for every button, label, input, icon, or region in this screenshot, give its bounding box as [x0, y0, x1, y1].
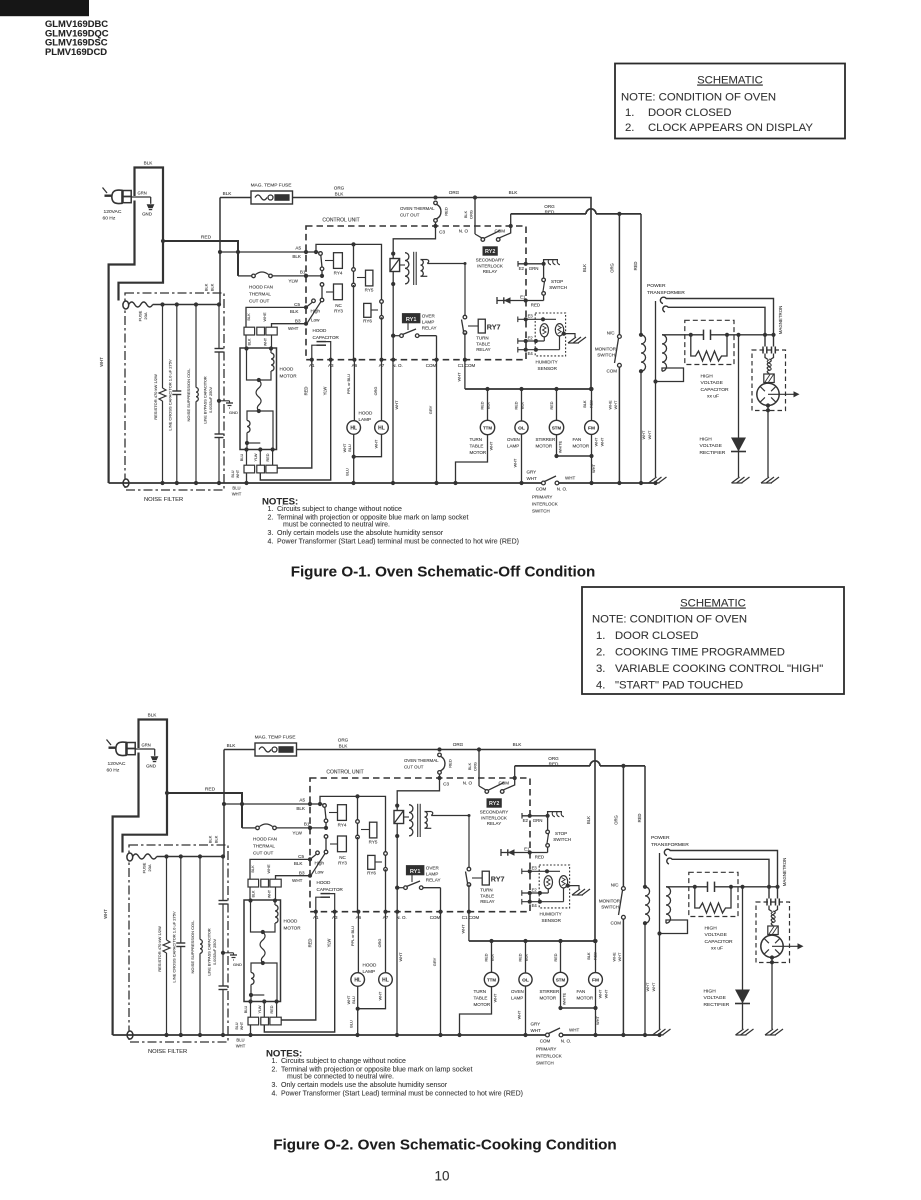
svg-text:WHE: WHE	[612, 952, 617, 961]
control unit bottom terminals	[310, 358, 314, 362]
magnetron tube	[761, 935, 783, 957]
svg-text:A5: A5	[295, 246, 301, 251]
hood motor upper connector	[244, 327, 255, 335]
svg-text:GND: GND	[142, 211, 152, 216]
svg-text:xx uF: xx uF	[711, 946, 723, 952]
svg-text:WHT: WHT	[651, 982, 656, 991]
power transformer filament winding leads	[660, 297, 773, 346]
svg-text:WHT: WHT	[595, 437, 599, 446]
svg-text:HOOD: HOOD	[317, 880, 331, 885]
svg-text:NOTE: CONDITION OF OVEN: NOTE: CONDITION OF OVEN	[621, 92, 776, 104]
svg-text:TRANSFORMER: TRANSFORMER	[647, 290, 685, 296]
svg-text:THERMAL: THERMAL	[249, 292, 271, 297]
svg-text:must be connected to neutral w: must be connected to neutral wire.	[287, 1073, 394, 1080]
svg-text:SWITCH: SWITCH	[601, 905, 619, 910]
svg-text:OVEN: OVEN	[511, 989, 524, 994]
svg-text:LAMP: LAMP	[359, 417, 372, 422]
svg-text:WHT: WHT	[99, 357, 104, 367]
svg-text:RY2: RY2	[485, 249, 495, 255]
svg-text:N. O: N. O	[463, 781, 473, 786]
svg-text:COM: COM	[540, 1039, 551, 1044]
hood motor center squiggle	[260, 932, 265, 963]
svg-text:GRY: GRY	[432, 957, 437, 966]
svg-text:WHT: WHT	[494, 993, 498, 1002]
magnetron cathode block	[768, 926, 778, 935]
svg-text:E2: E2	[532, 887, 538, 892]
low voltage transformer	[394, 811, 404, 824]
svg-text:1.: 1.	[268, 506, 274, 513]
svg-text:E2: E2	[519, 266, 525, 271]
svg-text:HOOD: HOOD	[313, 328, 327, 333]
svg-text:WHT: WHT	[531, 1028, 541, 1033]
svg-text:INTERLOCK: INTERLOCK	[477, 263, 503, 268]
humidity sensor element 1	[540, 324, 548, 337]
svg-text:4.: 4.	[596, 680, 605, 692]
svg-text:MOTOR: MOTOR	[573, 444, 590, 449]
svg-text:CAPACITOR: CAPACITOR	[701, 387, 730, 393]
svg-text:STIRRER: STIRRER	[540, 989, 561, 994]
svg-text:WHT: WHT	[569, 1028, 579, 1033]
svg-text:WHT: WHT	[347, 995, 351, 1004]
wire hood motor BLU to neutral bus	[246, 473, 248, 483]
wire GRN to chassis ground	[131, 196, 151, 198]
svg-text:SWITCH: SWITCH	[532, 509, 550, 514]
humidity sensor terminal E3	[518, 318, 556, 320]
svg-text:PRIMARY: PRIMARY	[532, 495, 552, 500]
wire N.O. WHT down	[392, 360, 394, 483]
svg-text:LINE BYPASS CAPACITOR: LINE BYPASS CAPACITOR	[204, 376, 208, 424]
svg-text:WHT: WHT	[343, 443, 347, 452]
svg-text:120VAC: 120VAC	[104, 209, 122, 215]
svg-text:WHE: WHE	[608, 400, 613, 409]
svg-text:N/C: N/C	[611, 883, 620, 888]
svg-text:VOLTAGE: VOLTAGE	[700, 443, 723, 449]
svg-text:RY5: RY5	[365, 288, 374, 293]
svg-text:STM: STM	[552, 426, 562, 431]
svg-text:BLU: BLU	[232, 486, 240, 491]
svg-text:HL: HL	[350, 426, 357, 432]
terminal B3	[308, 874, 312, 878]
hood lamp HL 2	[381, 360, 383, 421]
svg-text:3.: 3.	[596, 663, 605, 675]
svg-text:RY6: RY6	[363, 319, 372, 324]
svg-text:20A: 20A	[147, 864, 152, 871]
svg-text:C3: C3	[443, 782, 449, 787]
humidity sensor ground	[568, 886, 579, 889]
AC power cord plug 120VAC	[116, 742, 126, 755]
svg-text:RY4: RY4	[338, 823, 347, 828]
svg-text:Power Transformer (Start Lead): Power Transformer (Start Lead) terminal …	[281, 1091, 523, 1098]
svg-text:PPL or BLU: PPL or BLU	[351, 926, 355, 946]
svg-text:2.: 2.	[625, 122, 634, 134]
wire top supply bus BLK/ORG	[297, 750, 596, 942]
humidity sensor element 1	[544, 876, 552, 889]
svg-text:POWER: POWER	[647, 283, 666, 289]
humidity sensor element 2	[555, 324, 563, 336]
header black bar	[0, 0, 89, 16]
svg-text:WHT: WHT	[601, 437, 605, 446]
svg-text:MAGNETRON: MAGNETRON	[778, 306, 783, 335]
svg-text:WHT: WHT	[599, 989, 603, 998]
monitor switch on ORG line	[622, 766, 624, 887]
svg-text:RELAY: RELAY	[426, 878, 441, 883]
svg-text:BLU: BLU	[235, 1022, 239, 1029]
svg-text:ORG: ORG	[338, 738, 349, 743]
wire WHT neutral from plug	[113, 753, 139, 1036]
svg-text:SWITCH: SWITCH	[536, 1061, 554, 1066]
svg-text:RED: RED	[633, 262, 638, 271]
primary interlock switch	[546, 1033, 550, 1037]
svg-text:FUSE: FUSE	[142, 862, 147, 873]
svg-text:HL: HL	[354, 978, 361, 984]
svg-text:GRN: GRN	[142, 743, 151, 748]
noise filter bottom terminal	[123, 479, 129, 487]
wire WHT neutral from plug	[109, 201, 135, 484]
svg-text:RED: RED	[444, 207, 449, 216]
svg-text:MOTOR: MOTOR	[280, 374, 298, 379]
hood lamp return wires	[353, 434, 355, 483]
svg-text:WHT: WHT	[461, 924, 466, 934]
hood motor main winding	[248, 898, 252, 902]
noise filter line cross capacitor	[176, 305, 178, 392]
line fuse 20A	[123, 301, 129, 309]
svg-text:C3: C3	[439, 230, 445, 235]
svg-text:TABLE: TABLE	[476, 341, 490, 346]
svg-text:HIGH: HIGH	[700, 437, 713, 443]
svg-text:BLU: BLU	[240, 454, 244, 462]
svg-text:MAG. TEMP FUSE: MAG. TEMP FUSE	[251, 183, 292, 189]
svg-text:GND: GND	[233, 962, 242, 967]
magnetron filament feedthrough capacitors	[766, 899, 768, 906]
svg-text:CUT OUT: CUT OUT	[249, 299, 270, 304]
svg-text:BLK: BLK	[296, 806, 306, 811]
svg-text:120VAC: 120VAC	[108, 761, 126, 767]
terminal C5	[308, 857, 312, 861]
magnetron tube	[757, 383, 779, 405]
relay RY1 contact	[411, 875, 413, 882]
magnetron antenna arrow	[772, 945, 798, 947]
svg-text:RY2: RY2	[489, 801, 499, 807]
svg-text:LAMP: LAMP	[422, 320, 435, 325]
svg-text:TURN: TURN	[474, 989, 487, 994]
power transformer primary winding	[643, 885, 647, 889]
svg-text:N. O: N. O	[459, 229, 469, 234]
svg-text:GRN: GRN	[138, 191, 147, 196]
svg-text:B1: B1	[300, 270, 306, 275]
svg-text:E3: E3	[528, 314, 534, 319]
motor supply bus	[468, 912, 470, 941]
svg-text:HL: HL	[378, 426, 385, 432]
wire RY7 to terminal C1	[464, 333, 466, 360]
relay RY2 secondary interlock contact	[477, 747, 481, 751]
svg-text:Terminal with projection or op: Terminal with projection or opposite blu…	[281, 1066, 472, 1073]
svg-text:ORG: ORG	[334, 186, 345, 191]
relay RY1 label box	[402, 314, 420, 323]
svg-text:TURN: TURN	[476, 336, 489, 341]
svg-text:E2: E2	[523, 818, 529, 823]
svg-text:BLK: BLK	[208, 835, 213, 843]
hood lamp HL 1	[353, 360, 355, 421]
svg-text:RESISTOR 470 kW 1/2W: RESISTOR 470 kW 1/2W	[153, 374, 158, 420]
svg-text:MONITOR: MONITOR	[595, 347, 617, 352]
relay RY2 label box	[487, 799, 501, 807]
oven lamp OL	[523, 939, 527, 943]
svg-text:N. O.: N. O.	[392, 363, 403, 368]
svg-text:WHT: WHT	[232, 492, 242, 497]
hood fan thermal cut out switch	[238, 275, 252, 277]
relay RY4 contact	[306, 251, 319, 253]
svg-text:WHT: WHT	[647, 430, 652, 439]
svg-text:WHT: WHT	[379, 991, 383, 1000]
svg-text:YLW: YLW	[323, 387, 328, 396]
stop switch contact	[546, 830, 550, 834]
noise filter resistor 470k	[166, 857, 168, 941]
svg-text:STIRRER: STIRRER	[536, 437, 557, 442]
svg-text:WHT: WHT	[490, 441, 494, 450]
svg-text:BLK: BLK	[214, 835, 219, 843]
svg-text:FM: FM	[588, 426, 595, 432]
svg-text:INTERLOCK: INTERLOCK	[532, 502, 558, 507]
svg-text:DOOR CLOSED: DOOR CLOSED	[648, 107, 732, 119]
svg-text:N. O.: N. O.	[561, 1039, 572, 1044]
svg-text:COM: COM	[499, 781, 510, 786]
svg-text:TURN: TURN	[470, 437, 483, 442]
svg-text:1.: 1.	[272, 1058, 278, 1065]
hood motor center squiggle	[256, 380, 261, 411]
svg-text:RED: RED	[637, 814, 642, 823]
stirrer and fan motor return rail	[557, 455, 592, 457]
svg-text:CUT OUT: CUT OUT	[400, 213, 420, 218]
svg-text:RESISTOR 470 kW 1/2W: RESISTOR 470 kW 1/2W	[157, 926, 162, 972]
svg-text:FAN: FAN	[573, 437, 582, 442]
svg-text:WHT: WHT	[617, 952, 622, 961]
svg-text:SWITCH: SWITCH	[597, 353, 615, 358]
magnetron cathode block	[764, 374, 774, 383]
svg-text:MOTOR: MOTOR	[577, 996, 594, 1001]
relay RY7 contact and coil	[467, 867, 471, 871]
svg-text:GRY: GRY	[531, 1022, 541, 1027]
svg-text:Figure O-1. Oven Schematic-Off: Figure O-1. Oven Schematic-Off Condition	[291, 564, 596, 581]
svg-text:HIGH: HIGH	[701, 374, 714, 380]
svg-text:C1 COM: C1 COM	[458, 363, 476, 368]
svg-text:60 Hz: 60 Hz	[107, 767, 120, 773]
AC power cord plug 120VAC	[112, 190, 122, 203]
svg-text:BLK: BLK	[210, 283, 215, 291]
svg-text:COM: COM	[430, 915, 441, 920]
svg-text:Power Transformer (Start Lead): Power Transformer (Start Lead) terminal …	[277, 539, 519, 546]
svg-text:BLK: BLK	[521, 401, 525, 409]
svg-text:ORG: ORG	[378, 939, 382, 948]
svg-text:ORG: ORG	[610, 263, 615, 273]
svg-text:C1 COM: C1 COM	[462, 915, 480, 920]
svg-text:RELAY: RELAY	[487, 821, 501, 826]
svg-text:RELAY: RELAY	[480, 899, 494, 904]
power transformer core to ground	[655, 301, 657, 477]
neutral bottom bus	[109, 482, 542, 484]
svg-text:MOTOR: MOTOR	[284, 926, 302, 931]
svg-text:RY5: RY5	[369, 840, 378, 845]
wire transformer secondary to RY7	[431, 816, 469, 868]
svg-text:WHT: WHT	[398, 952, 403, 962]
svg-text:CUT OUT: CUT OUT	[253, 851, 274, 856]
svg-text:2.: 2.	[596, 647, 605, 659]
svg-text:C5: C5	[294, 302, 300, 307]
wire RY6 to terminal A7	[381, 317, 383, 359]
control unit bottom terminals	[314, 910, 318, 914]
primary interlock switch	[542, 481, 546, 485]
svg-text:YLW: YLW	[258, 1005, 262, 1013]
svg-text:BLK: BLK	[248, 338, 252, 345]
svg-text:TABLE: TABLE	[470, 444, 484, 449]
terminal C3	[437, 776, 441, 780]
wires connector to hood motor	[245, 335, 247, 348]
svg-text:WHT: WHT	[240, 1021, 244, 1030]
svg-text:FUSE: FUSE	[138, 310, 143, 321]
svg-text:Only certain models use the ab: Only certain models use the absolute hum…	[281, 1082, 448, 1089]
svg-text:COOKING TIME PROGRAMMED: COOKING TIME PROGRAMMED	[615, 647, 785, 659]
svg-text:WHT: WHT	[264, 337, 268, 346]
noise filter dash-dot box	[129, 845, 228, 1042]
svg-text:LINE CROSS CAPACITOR 1.0 uF 27: LINE CROSS CAPACITOR 1.0 uF 275V	[172, 911, 177, 983]
wire N.O. WHT down	[396, 912, 398, 1035]
stirrer motor STM	[554, 387, 558, 391]
svg-text:BLK: BLK	[292, 254, 302, 259]
svg-text:N. O.: N. O.	[396, 915, 407, 920]
svg-text:BLK: BLK	[509, 190, 519, 195]
humidity sensor terminal E3	[522, 870, 560, 872]
humidity sensor dotted box	[535, 313, 565, 356]
svg-text:HIGH: HIGH	[704, 989, 717, 995]
monitor switch on ORG line	[618, 214, 620, 335]
relay RY4 contact	[310, 803, 323, 805]
svg-text:BLK: BLK	[223, 191, 233, 196]
hood motor start winding	[247, 411, 273, 450]
power transformer primary winding	[639, 333, 643, 337]
line bypass capacitor 2	[219, 985, 228, 987]
noise filter bottom terminal	[127, 1031, 133, 1039]
svg-text:YLW: YLW	[292, 831, 302, 836]
relay RY6 contact and coil	[384, 852, 388, 856]
svg-text:BLK: BLK	[144, 161, 154, 166]
svg-text:N/C: N/C	[607, 331, 616, 336]
svg-text:BLK: BLK	[467, 762, 472, 770]
svg-text:OL: OL	[518, 426, 525, 432]
wire BLK trunk from plug	[119, 168, 164, 301]
high voltage rectifier diode	[738, 335, 740, 477]
svg-text:LINE BYPASS CAPACITOR: LINE BYPASS CAPACITOR	[208, 928, 212, 976]
svg-text:BLK: BLK	[290, 309, 300, 314]
wire RY6 to terminal A7	[385, 869, 387, 911]
terminal B3	[304, 322, 308, 326]
relay RY2 label box	[483, 247, 497, 255]
svg-text:RED: RED	[201, 235, 212, 241]
wire to A5 terminal	[224, 803, 310, 805]
terminal C3	[433, 224, 437, 228]
svg-text:xx uF: xx uF	[707, 394, 719, 400]
svg-text:YLW: YLW	[327, 939, 332, 948]
relay RY2 secondary interlock contact	[473, 195, 477, 199]
svg-text:WHT: WHT	[514, 458, 518, 467]
svg-text:OVEN THERMAL: OVEN THERMAL	[400, 206, 435, 211]
svg-text:INTERLOCK: INTERLOCK	[481, 815, 507, 820]
svg-text:CONTROL UNIT: CONTROL UNIT	[326, 770, 363, 776]
wire ORG RED to power transformer	[511, 213, 586, 215]
svg-text:BLU: BLU	[244, 1006, 248, 1014]
relay RY5 contact and coil	[357, 796, 359, 819]
svg-text:RED: RED	[205, 787, 216, 793]
svg-text:TABLE: TABLE	[480, 893, 494, 898]
hood lamp return wires	[357, 986, 359, 1035]
wire A1 RED to hood motor	[278, 360, 312, 468]
svg-text:HIGH: HIGH	[705, 926, 718, 932]
svg-text:RED: RED	[554, 953, 558, 961]
svg-text:MAGNETRON: MAGNETRON	[782, 858, 787, 887]
wire to A5 terminal	[220, 251, 306, 253]
motor supply bus	[464, 360, 466, 389]
svg-text:BLK: BLK	[513, 742, 523, 747]
wire COM GRY down	[436, 360, 438, 483]
svg-text:Low: Low	[315, 870, 324, 875]
svg-text:GRN: GRN	[529, 266, 539, 271]
svg-text:CONTROL UNIT: CONTROL UNIT	[322, 218, 359, 224]
svg-text:LAMP: LAMP	[363, 969, 376, 974]
svg-text:MOTOR: MOTOR	[540, 996, 557, 1001]
svg-text:NC: NC	[339, 855, 346, 860]
noise filter resistor 470k	[162, 305, 164, 389]
svg-text:WHITE: WHITE	[559, 440, 563, 453]
wire BLK to fuse	[220, 197, 251, 199]
hood motor connector	[244, 465, 255, 473]
svg-text:WHT: WHT	[268, 889, 272, 898]
high-low selector blade	[312, 299, 316, 303]
svg-text:HOOD: HOOD	[363, 963, 377, 968]
svg-text:RY1: RY1	[410, 869, 421, 875]
svg-text:BLK: BLK	[586, 816, 591, 824]
wire hood motor BLU to neutral bus	[250, 1025, 252, 1035]
svg-text:INTERLOCK: INTERLOCK	[536, 1054, 562, 1059]
rail from A5 to relay contacts	[316, 244, 382, 299]
svg-text:E1: E1	[524, 846, 530, 851]
stop switch membrane pad	[544, 260, 558, 264]
svg-text:STOP: STOP	[555, 831, 567, 836]
hood motor	[240, 348, 277, 450]
svg-text:SWITCH: SWITCH	[549, 285, 567, 290]
svg-text:HOOD: HOOD	[284, 919, 298, 924]
line bypass capacitor 1	[222, 857, 224, 901]
svg-text:BLK: BLK	[582, 264, 587, 272]
svg-text:CAPACITOR: CAPACITOR	[313, 335, 340, 340]
wire RY1 to COM terminal	[440, 888, 442, 912]
svg-text:2.: 2.	[268, 514, 274, 521]
svg-text:RED: RED	[304, 387, 309, 396]
svg-text:BLK: BLK	[339, 744, 349, 749]
wires C5 B3 to hood motor connector	[246, 307, 306, 327]
schematic note box figure O-1	[615, 64, 845, 139]
wire BLK trunk from plug	[123, 720, 168, 853]
high voltage rectifier diode	[742, 887, 744, 1029]
svg-text:2.: 2.	[272, 1066, 278, 1073]
svg-text:GRY: GRY	[428, 405, 433, 414]
wire RED hot feed	[167, 793, 242, 828]
svg-text:CUT OUT: CUT OUT	[404, 765, 424, 770]
hood motor main winding	[244, 346, 248, 350]
noise filter internal ground	[223, 952, 234, 954]
svg-text:RELAY: RELAY	[483, 269, 497, 274]
svg-text:1.: 1.	[625, 107, 634, 119]
svg-text:BLK: BLK	[335, 192, 345, 197]
humidity sensor terminal E2	[522, 892, 549, 894]
svg-text:E4: E4	[532, 903, 538, 908]
